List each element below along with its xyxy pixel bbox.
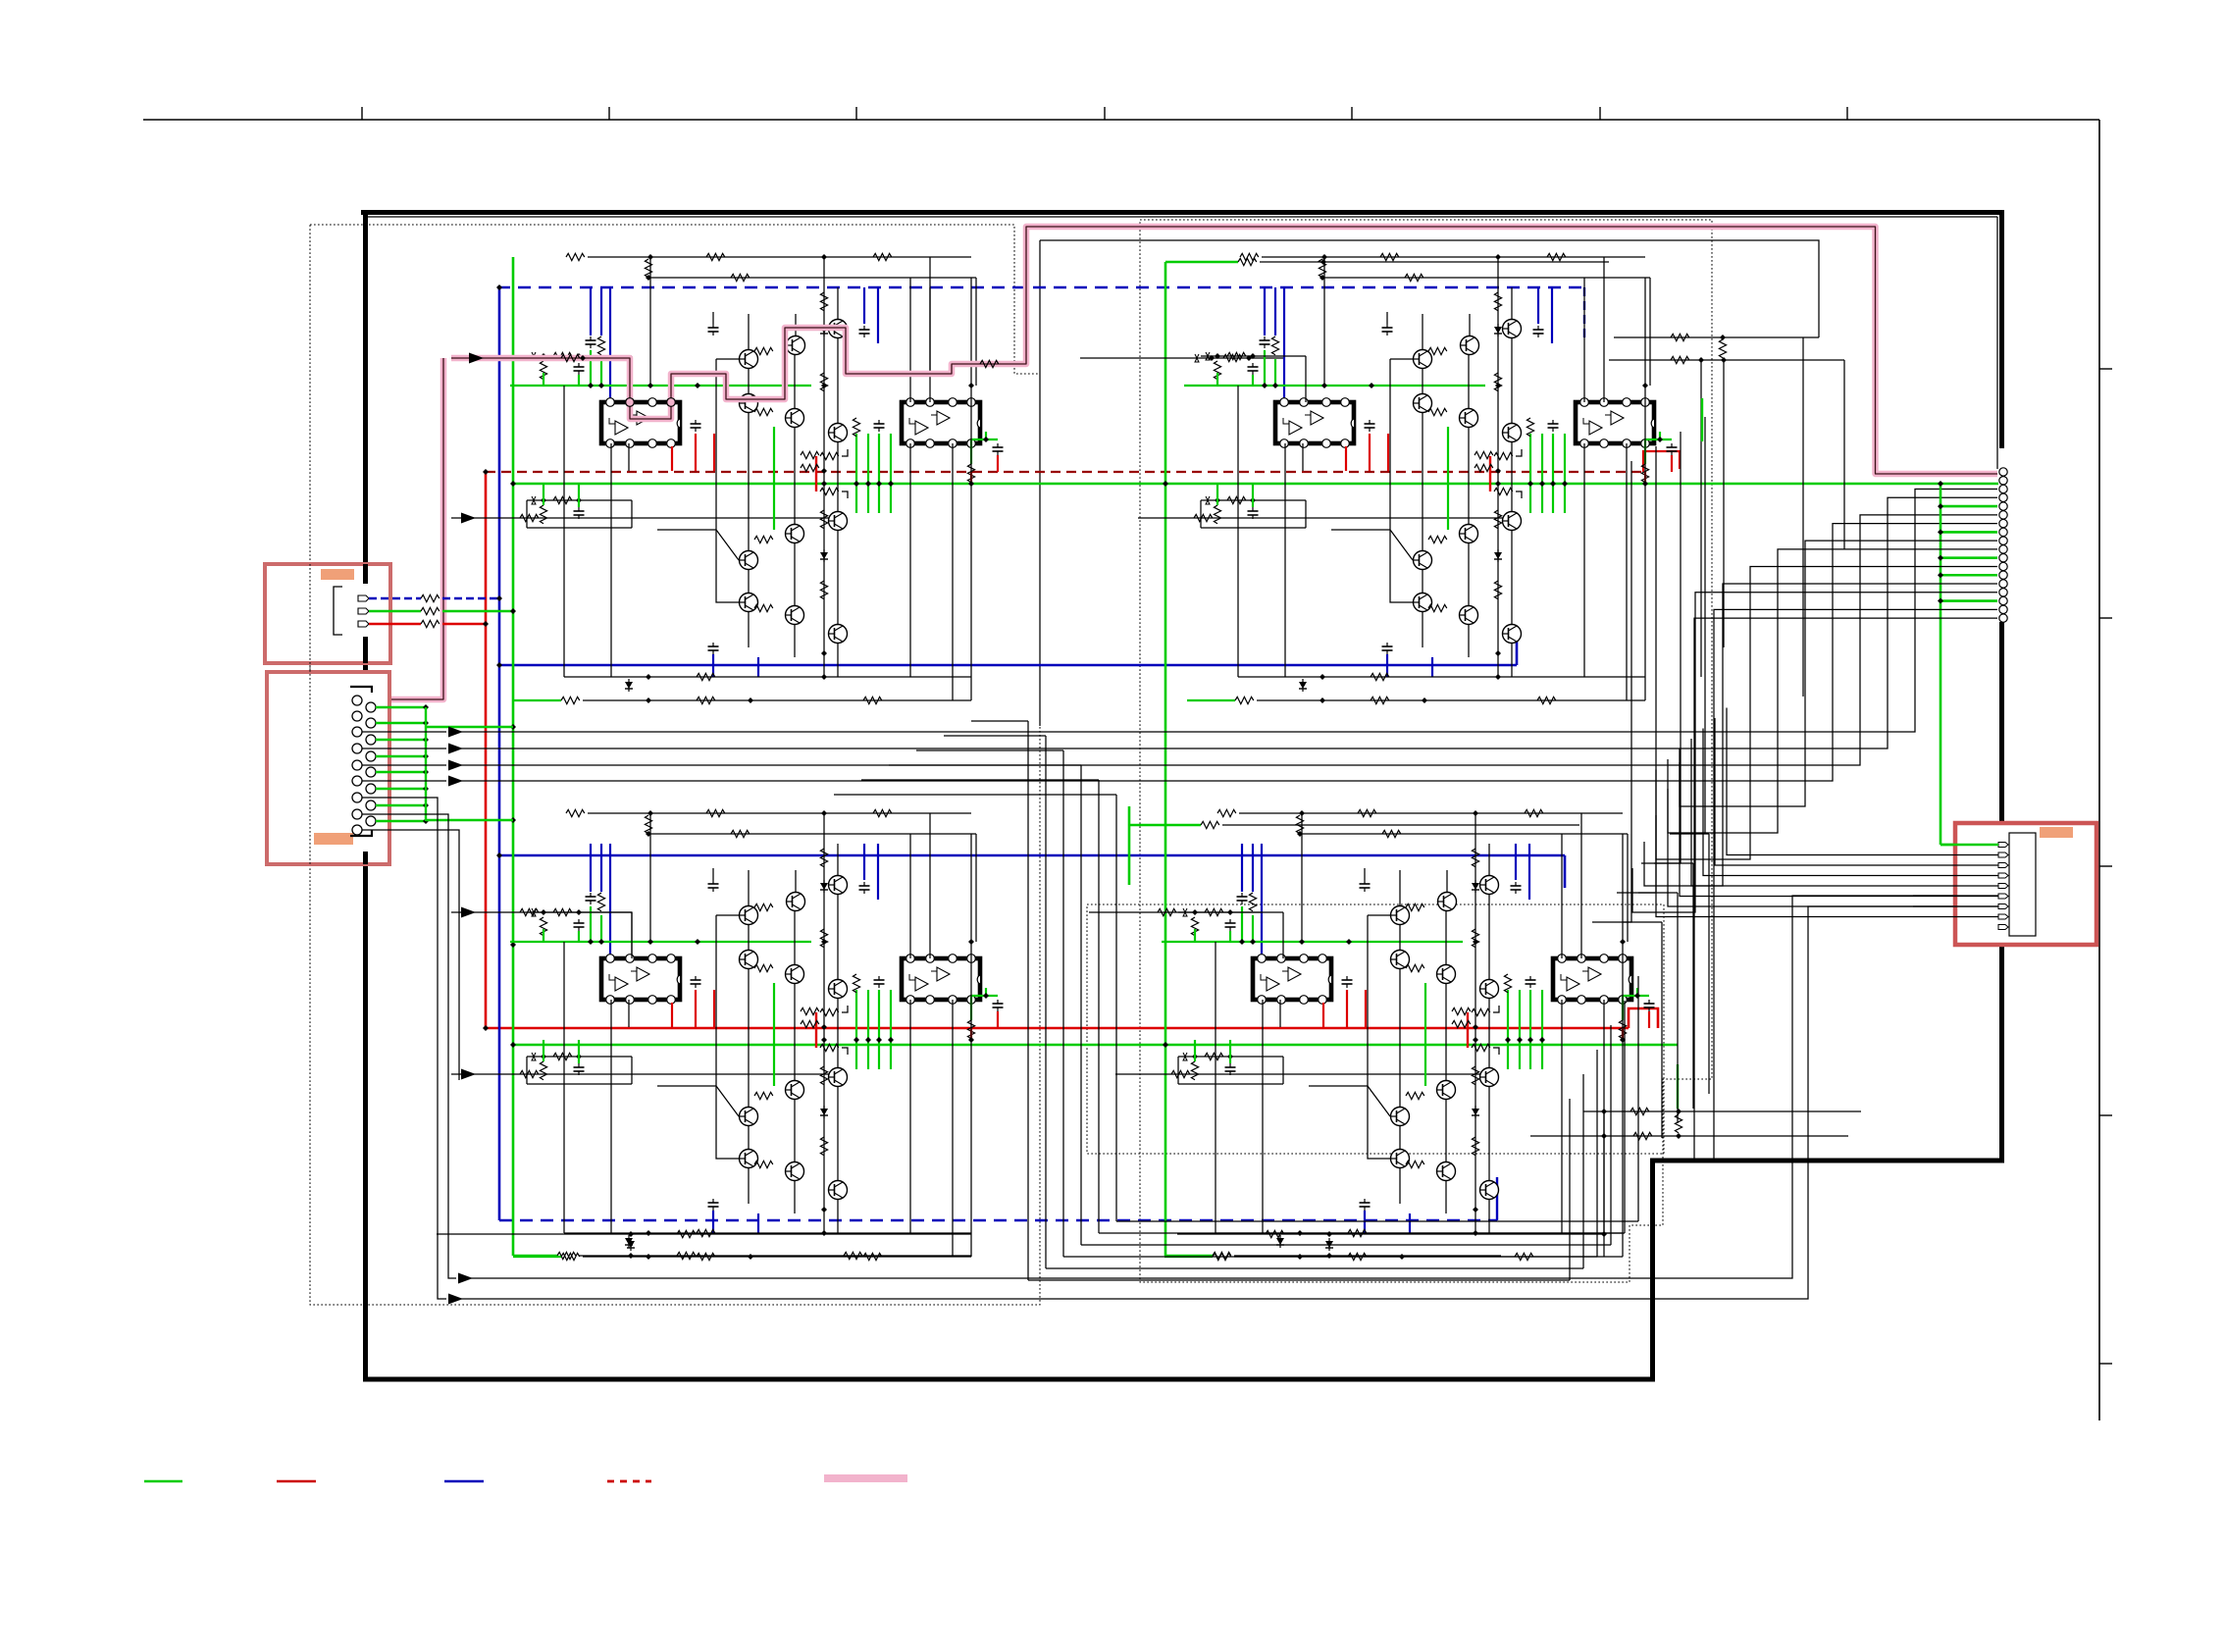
frame tick top xyxy=(1599,107,1601,120)
resistor xyxy=(520,908,539,915)
pin CN4-1 xyxy=(1998,843,2008,848)
pin CN3-10 xyxy=(1999,545,2007,553)
frame tick top xyxy=(608,107,610,120)
wire right mesh hook 2 xyxy=(1638,892,1678,894)
wire crossover bv 5 xyxy=(1624,1001,1626,1233)
bracket CN2 bottom xyxy=(350,830,372,836)
wire crossover bv 1 xyxy=(1569,1099,1571,1280)
diode xyxy=(627,1238,635,1251)
wire right mesh hook 4 xyxy=(1670,833,1709,835)
wire row B into CN4 xyxy=(1913,905,1998,907)
wire CN1-2 xyxy=(369,610,421,612)
pin CN2-L3 xyxy=(352,727,362,737)
wire row A into CN4 xyxy=(1913,895,1998,897)
wire crossover h 6 xyxy=(834,794,1116,796)
wire crossover h 5 xyxy=(861,779,1099,781)
wire CN1-1 xyxy=(369,597,421,599)
wire xyxy=(1802,337,1804,697)
pin CN3-1 xyxy=(1999,468,2007,476)
wire input RR2 xyxy=(1115,1073,1489,1075)
resistor xyxy=(421,607,440,614)
wire CN4 feed 7 xyxy=(1668,759,1998,906)
resistor xyxy=(1630,1108,1649,1114)
pin CN3-5 xyxy=(1999,502,2007,510)
wire green pin xyxy=(376,820,426,822)
pin CN3-3 xyxy=(1999,485,2007,492)
wire FR drop 3 xyxy=(1641,432,1681,863)
wire CN3 pin17 xyxy=(1714,609,1997,1159)
wire crossover b 6 xyxy=(1116,1220,1638,1222)
connector box CN2 xyxy=(267,672,389,864)
wire CN4 feed 8 xyxy=(1656,770,1998,917)
wire green stub pin 13 xyxy=(1940,574,1997,577)
pin CN3-7 xyxy=(1999,519,2007,527)
pin CN4-4 xyxy=(1998,873,2008,878)
board outline bottom xyxy=(363,1377,1655,1382)
wire crossover b 1 xyxy=(1028,1279,1570,1281)
pin CN3-18 xyxy=(1999,614,2007,622)
pin CN4-5 xyxy=(1998,884,2008,889)
wire green CN3 vertical xyxy=(1940,484,1942,845)
resistor xyxy=(520,1070,539,1077)
wire green pin xyxy=(376,722,426,724)
resistor vertical xyxy=(1675,1114,1682,1133)
resistor xyxy=(1633,1132,1652,1139)
resistor xyxy=(1213,1252,1231,1259)
pin CN4-8 xyxy=(1998,914,2008,919)
frame tick right xyxy=(2099,865,2112,867)
arrow input xyxy=(461,907,476,918)
pin CN2-L8 xyxy=(352,809,362,819)
wire red elbow xyxy=(1629,1008,1658,1028)
wire green vertical CN2 xyxy=(425,707,427,821)
arrow input xyxy=(461,513,476,524)
pin CN3-13 xyxy=(1999,571,2007,579)
bus red bottom xyxy=(486,1027,1629,1030)
bus blue dashed bottom xyxy=(499,1219,1497,1222)
legend blue xyxy=(444,1480,484,1483)
bus blue drop xyxy=(1583,287,1585,338)
frame tick top xyxy=(1104,107,1106,120)
wire row RR xyxy=(1177,1233,1604,1235)
wire xyxy=(1723,360,1725,647)
wire crossover h 2 xyxy=(944,735,1046,737)
wire xyxy=(1222,824,1579,826)
wire CN3 pin18 xyxy=(1694,618,1997,1159)
arrow xyxy=(448,744,463,754)
wire corridor row1 xyxy=(1614,336,1819,338)
wire input FR1 xyxy=(1080,358,1284,400)
board outline left lower xyxy=(363,852,368,1381)
wire input RL1 xyxy=(451,912,632,958)
pin CN4-7 xyxy=(1998,904,2008,909)
pin CN2-R5 xyxy=(366,767,376,777)
wire xyxy=(1843,360,1845,549)
wire xyxy=(929,287,931,374)
feed red vertical xyxy=(485,472,488,1028)
wire green elbow RR bottom xyxy=(1165,1255,1213,1258)
wire right mesh hook 3 xyxy=(1654,862,1693,864)
wire signal row 6 xyxy=(362,814,456,1278)
frame tick top xyxy=(1351,107,1353,120)
wire crossover b 3 xyxy=(1063,1256,1597,1258)
wire signal row 1 xyxy=(362,731,446,733)
wire input FR2 xyxy=(1138,517,1512,519)
resistor xyxy=(1266,1230,1284,1237)
pin CN2-L7 xyxy=(352,793,362,802)
frame tick top xyxy=(361,107,363,120)
resistor xyxy=(1223,354,1242,361)
wire green stub pin 11 xyxy=(1940,556,1997,559)
resistor xyxy=(520,514,539,521)
wire CN1 to bus xyxy=(442,597,499,599)
wire crossover b 2 xyxy=(1046,1267,1583,1269)
wire FR drop 1 xyxy=(1592,461,1631,922)
wire right mesh vertical 1 xyxy=(1661,922,1663,1138)
bus red dashed top xyxy=(486,471,1643,473)
resistor on pink leg xyxy=(980,360,999,367)
wire green pin xyxy=(376,739,426,741)
wire green stub pin 16 xyxy=(1940,599,1997,602)
dotted region box right xyxy=(1140,220,1712,1282)
dotted region box left xyxy=(310,225,1040,1305)
wire bottom row B xyxy=(461,906,1998,1299)
wire red hook xyxy=(1643,451,1680,472)
pin CN4-2 xyxy=(1998,852,2008,857)
frame tick top xyxy=(1846,107,1848,120)
resistor xyxy=(1671,334,1689,340)
wire green stub pin 8 xyxy=(1940,531,1997,534)
wire green link xyxy=(426,726,513,728)
wire bottom row A xyxy=(471,896,1998,1278)
resistor on pink xyxy=(561,354,580,361)
legend red xyxy=(277,1480,316,1483)
wire signal row 7 xyxy=(362,830,459,1080)
wire green feed RR xyxy=(1128,806,1131,885)
amplifier channel block FL xyxy=(510,253,1004,703)
resistor xyxy=(677,1252,696,1259)
resistor xyxy=(1201,821,1219,828)
wire signal row 2 xyxy=(362,748,446,749)
pink path main (highlight) xyxy=(451,227,1997,474)
pin CN2-L5 xyxy=(352,760,362,770)
wire crossover bv 6 xyxy=(1637,976,1639,1221)
wire input FL2 xyxy=(451,517,838,519)
amplifier channel block FR xyxy=(1184,253,1678,703)
pin CN2-L4 xyxy=(352,744,362,753)
connector box CN4 xyxy=(1955,823,2096,945)
wire step area vert xyxy=(1603,1111,1605,1234)
resistor xyxy=(421,594,440,601)
wire green link2 xyxy=(426,819,513,821)
pin CN2-R1 xyxy=(366,702,376,712)
pin CN3-17 xyxy=(1999,605,2007,613)
board outline right lower xyxy=(1999,944,2004,1163)
board outline through CN2 xyxy=(363,852,368,864)
diode mark xyxy=(1195,354,1199,362)
pin CN3-16 xyxy=(1999,596,2007,604)
wire green pin xyxy=(376,771,426,773)
wire crossover b 5 xyxy=(1099,1232,1625,1234)
bracket CN1 xyxy=(334,587,342,635)
arrow xyxy=(458,1273,473,1284)
bus green bottom xyxy=(513,1044,1678,1047)
pin CN3-9 xyxy=(1999,537,2007,544)
resistor xyxy=(1171,1070,1190,1077)
wire blue xyxy=(1496,1177,1498,1220)
wire green stub TR xyxy=(1701,398,1703,441)
wire crossover vertical 5 xyxy=(1098,780,1100,1233)
resistor xyxy=(557,1252,576,1259)
pin CN4-3 xyxy=(1998,863,2008,868)
wire green corner xyxy=(513,1255,557,1258)
resistor xyxy=(844,1252,862,1259)
wire signal row 5 xyxy=(362,798,446,1299)
pin CN3-4 xyxy=(1999,493,2007,501)
bus green top xyxy=(513,483,1998,486)
frame tick right xyxy=(2099,368,2112,370)
legend red dashed xyxy=(607,1480,651,1483)
pin CN2-R3 xyxy=(366,735,376,745)
wire CN4 feed 6 xyxy=(1680,749,1998,897)
wire crossover h 1 xyxy=(971,720,1028,722)
wire crossover h 3 xyxy=(916,749,1063,751)
bus blue solid bottom xyxy=(497,854,1565,857)
wire right mesh hook 1 xyxy=(1623,921,1662,923)
wire crossover b 4 xyxy=(1081,1244,1611,1246)
wire xyxy=(1260,261,1609,263)
pin CN2-R7 xyxy=(366,800,376,810)
pin CN3-11 xyxy=(1999,554,2007,562)
wire CN1 to bus xyxy=(442,623,486,625)
pin CN2-R8 xyxy=(366,816,376,826)
wire CN3 feed pin 12 xyxy=(1656,566,1997,859)
wire signal row 3 xyxy=(362,764,446,766)
pin CN3-12 xyxy=(1999,562,2007,570)
pin CN2-L1 xyxy=(352,696,362,705)
label CN1 xyxy=(321,569,354,580)
wire inner top xyxy=(365,216,1997,218)
wire green stub step xyxy=(1677,1064,1679,1109)
wire right mesh vertical 3 xyxy=(1692,863,1694,1109)
arrow xyxy=(448,760,463,771)
wire xyxy=(1700,360,1702,677)
frame tick right xyxy=(2099,1363,2112,1365)
wire green to CN4 xyxy=(1940,844,1998,847)
bus blue dashed top xyxy=(497,286,1584,289)
wire signal row 4 xyxy=(362,780,446,782)
wire crossover vertical 6 xyxy=(1115,795,1117,1221)
pin CN3-2 xyxy=(1999,477,2007,485)
wire step row1 xyxy=(1583,1110,1861,1112)
arrow pink xyxy=(469,353,484,364)
bus blue solid top xyxy=(498,664,1517,667)
arrow xyxy=(448,727,463,738)
pin CN3-6 xyxy=(1999,511,2007,519)
feed green vertical xyxy=(512,257,515,1256)
pin CN2-R2 xyxy=(366,718,376,728)
frame tick right xyxy=(2099,1114,2112,1116)
wire crossover vertical 2 xyxy=(1045,736,1047,1268)
wire blue xyxy=(1516,628,1519,665)
pin CN2-R4 xyxy=(366,751,376,761)
resistor vertical xyxy=(1719,339,1726,358)
wire CN4 feed 4 xyxy=(1703,729,1998,876)
pin highlight IC1 pin2 xyxy=(626,398,635,407)
arrow xyxy=(448,776,463,787)
wire FR drop 2 xyxy=(1617,446,1656,893)
wire blue xyxy=(1564,855,1567,888)
pin CN2-L9 xyxy=(352,825,362,835)
wire green feed FR vertical xyxy=(1164,262,1167,1256)
wire green pin xyxy=(376,706,426,708)
pink path leg CN2 (highlight) xyxy=(376,358,443,704)
wire CN3 feed pin 10 xyxy=(1668,549,1997,833)
pin CN1-3 xyxy=(358,621,369,627)
resistor xyxy=(1671,356,1689,363)
wire CN3 feed pin 14 xyxy=(1644,584,1997,886)
wire green stub pin 5 xyxy=(1940,505,1997,508)
label CN4 xyxy=(2040,827,2073,838)
frame right border xyxy=(2098,120,2100,1420)
wire crossover bv 2 xyxy=(1582,1074,1584,1268)
pin CN2-L2 xyxy=(352,711,362,721)
wire crossover bv 3 xyxy=(1596,1050,1598,1257)
feed blue vertical xyxy=(498,287,501,1220)
amplifier channel block RL xyxy=(510,809,1004,1260)
wire crossover bv 4 xyxy=(1610,1025,1612,1245)
wire right mesh vertical 2 xyxy=(1677,893,1679,1123)
label CN2 xyxy=(314,833,353,845)
wire crossover vertical 4 xyxy=(1080,765,1082,1245)
board outline through CN1 xyxy=(363,564,368,584)
pin CN2-R6 xyxy=(366,784,376,794)
pin CN3-14 xyxy=(1999,580,2007,588)
dotted region box right lower xyxy=(1087,904,1664,1154)
frame top border xyxy=(143,119,2099,121)
wire green into CN4 xyxy=(1940,844,1998,847)
pin CN1-2 xyxy=(358,608,369,614)
diode xyxy=(1325,1238,1333,1251)
pin CN4-6 xyxy=(1998,894,2008,899)
wire crossover h 4 xyxy=(889,764,1081,766)
board outline top xyxy=(361,210,2004,215)
frame tick right xyxy=(2099,617,2112,619)
resistor xyxy=(1158,908,1176,915)
wire xyxy=(1039,240,1041,726)
wire CN3 feed pin 15 xyxy=(1632,593,1997,912)
CN4 inner outline xyxy=(2009,833,2036,936)
wire FR drop 4 xyxy=(1704,417,1706,834)
wire inner loop xyxy=(1040,240,1819,337)
connector box CN1 xyxy=(265,564,390,663)
wire crossover vertical 1 xyxy=(1027,721,1029,1280)
board outline right mid xyxy=(1999,622,2004,822)
wire green pin xyxy=(376,755,426,757)
wire crossover vertical 3 xyxy=(1062,750,1064,1257)
wire xyxy=(437,1233,971,1235)
legend pink swatch xyxy=(824,1474,907,1482)
wire xyxy=(579,1255,971,1257)
wire input RR1 xyxy=(1089,912,1262,956)
board outline step v xyxy=(1650,1159,1655,1381)
wire CN4 feed 2 xyxy=(1727,708,1998,855)
wire CN3 feed pin 9 xyxy=(1680,541,1997,806)
wire green pin xyxy=(376,788,426,790)
board outline right upper xyxy=(1999,210,2004,448)
board outline left midseg xyxy=(363,637,368,686)
dotted line through connectors xyxy=(309,564,311,864)
resistor xyxy=(1194,514,1213,521)
pin CN2-L6 xyxy=(352,776,362,786)
wire CN4 feed 5 xyxy=(1691,739,1998,886)
wire corridor row2 xyxy=(1609,359,1844,361)
wire xyxy=(1234,1255,1501,1257)
pin CN3-15 xyxy=(1999,589,2007,596)
wire CN4 feed 3 xyxy=(1715,718,1998,865)
wire step row2 xyxy=(1530,1135,1848,1137)
wire CN1-3 xyxy=(369,623,421,625)
resistor xyxy=(421,620,440,627)
wire right mesh vertical 4 xyxy=(1708,834,1710,1094)
junction xyxy=(510,481,516,487)
resistor xyxy=(677,1230,696,1237)
amplifier channel block RR xyxy=(1162,809,1655,1260)
pin CN1-1 xyxy=(358,595,369,601)
resistor xyxy=(1238,258,1257,265)
wire inner right xyxy=(1996,217,1998,469)
pin CN3-8 xyxy=(1999,528,2007,536)
wire green pin xyxy=(376,804,426,806)
bracket CN2 top xyxy=(350,687,372,693)
pin CN4-9 xyxy=(1998,925,2008,930)
wire input RL2 xyxy=(451,1073,838,1075)
arrow xyxy=(448,1294,463,1305)
frame tick top xyxy=(855,107,857,120)
legend green xyxy=(144,1480,182,1483)
arrow input xyxy=(461,1069,476,1080)
board outline step h xyxy=(1650,1159,2004,1163)
wire CN1 to bus xyxy=(442,610,513,612)
pin highlight IC1 pin4 xyxy=(667,398,676,407)
board outline left upper xyxy=(363,210,368,584)
